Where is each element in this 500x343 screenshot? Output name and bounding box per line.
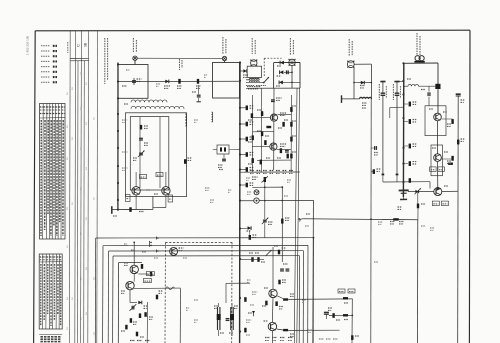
svg-text:3B: 3B — [83, 42, 87, 47]
svg-text:1 902 226 105: 1 902 226 105 — [26, 35, 30, 55]
svg-text:C: C — [75, 44, 80, 47]
